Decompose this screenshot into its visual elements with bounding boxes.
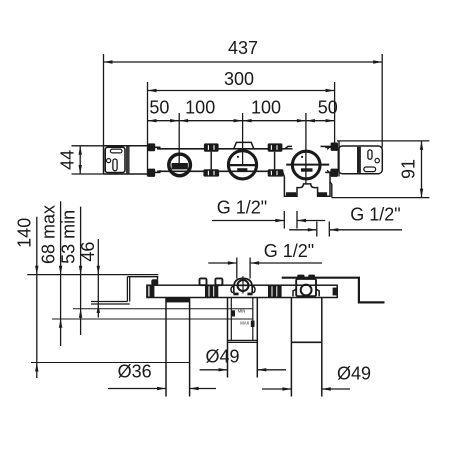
valve 3 circle bottom view	[301, 285, 312, 296]
rail body	[147, 285, 337, 297]
extension line left end 437	[103, 54, 105, 146]
right bracket plate	[338, 146, 382, 174]
housing step vertical	[330, 182, 332, 198]
svg-text:Ø49: Ø49	[205, 347, 239, 367]
dimension 437 line	[104, 60, 383, 63]
right bracket seam	[357, 147, 361, 173]
left Z bracket drop	[127, 277, 129, 302]
G12 dim 1	[212, 219, 325, 222]
reference line wall	[27, 274, 158, 276]
svg-text:Ø49: Ø49	[337, 364, 371, 384]
dimension 91 line	[420, 141, 423, 198]
svg-text:G 1/2": G 1/2"	[350, 205, 400, 225]
cartridge body inner	[231, 298, 253, 341]
cartridge crosshair	[236, 276, 249, 293]
valve 2 dot	[237, 156, 239, 158]
tube bottom line	[157, 170, 283, 172]
G12 ext lines port1	[284, 211, 297, 229]
clip bottom left	[148, 169, 161, 177]
clamp A top bolts	[204, 143, 219, 151]
housing bottom edge	[332, 197, 430, 199]
extension line 300 left	[147, 82, 149, 177]
clamp B stem	[274, 152, 276, 170]
svg-text:50: 50	[318, 98, 338, 118]
svg-text:Ø36: Ø36	[118, 362, 152, 382]
clip bottom right	[325, 169, 338, 177]
cartridge circle	[238, 280, 249, 291]
cartridge left wing	[231, 286, 234, 292]
cartridge hood	[234, 278, 252, 292]
clamp A block bottom view	[205, 285, 218, 297]
tube top right of valve3	[321, 145, 332, 147]
cartridge MAX clip	[251, 321, 255, 327]
right bracket slot	[364, 167, 376, 172]
cartridge flange lines	[228, 340, 258, 342]
clamp B bottom bolts	[268, 169, 284, 176]
extension line valve1	[178, 113, 180, 165]
left bracket seam	[126, 146, 129, 174]
left bracket vertical slot	[113, 159, 117, 171]
valve 1 ring	[169, 154, 191, 176]
G12 ext lines cartridge	[237, 258, 250, 279]
svg-text:437: 437	[228, 38, 258, 58]
G12 dim 3	[208, 261, 322, 264]
dimension 68max line	[59, 201, 62, 346]
cartridge right wing	[252, 286, 255, 292]
svg-text:140: 140	[15, 218, 35, 248]
left Z bracket inner top	[127, 276, 158, 278]
svg-text:MAX: MAX	[240, 320, 249, 325]
dimension O36	[108, 387, 216, 390]
svg-text:50: 50	[149, 98, 169, 118]
right Z bracket	[282, 278, 385, 303]
valve 3 ring	[292, 151, 320, 179]
housing top edge	[337, 140, 429, 142]
svg-text:G 1/2": G 1/2"	[264, 241, 314, 261]
left bracket hole	[107, 159, 111, 163]
valve 2 ring	[228, 151, 256, 179]
right bracket hole	[375, 158, 379, 162]
cartridge body outer	[228, 298, 258, 378]
tube top line	[157, 148, 285, 150]
extension line valve3	[305, 113, 307, 184]
outlet thread mark right	[318, 192, 327, 196]
left Z bracket lower leg	[91, 302, 130, 305]
valve 2 slot	[237, 168, 247, 172]
svg-text:44: 44	[58, 150, 78, 170]
left bracket plate	[105, 147, 125, 172]
svg-text:91: 91	[399, 159, 419, 179]
valve 3 slot	[301, 168, 313, 171]
dimension 300 line	[148, 89, 335, 92]
tube top step	[285, 146, 292, 148]
clamp B top bolts	[268, 143, 283, 151]
left Z bracket hook	[157, 277, 159, 280]
right end vertical	[381, 141, 383, 148]
clamp A bolts bottom view	[200, 278, 223, 285]
left bracket slot	[110, 149, 122, 153]
dimension O49 center	[200, 368, 286, 371]
svg-text:46: 46	[78, 242, 98, 262]
right bracket vertical slot	[368, 150, 372, 159]
extension line right end 437	[381, 54, 383, 141]
inlet bolt bottom view	[151, 279, 158, 285]
chain dimension line	[148, 119, 335, 122]
valve 3 housing bottom view	[296, 279, 316, 296]
rail right end block	[333, 288, 338, 296]
valve 3 dot	[301, 156, 303, 158]
dimension O49 right	[262, 387, 350, 390]
clamp A stem	[210, 152, 212, 170]
clamp B block bottom view	[268, 285, 282, 297]
valve 2 axis line	[230, 164, 255, 166]
pipe 3 outline	[291, 298, 321, 397]
clamp A bottom bolts	[203, 169, 219, 176]
svg-text:MIN: MIN	[238, 308, 246, 313]
tube top into valve3	[285, 148, 293, 150]
valve 3 bolts bottom view	[297, 275, 315, 280]
cartridge MIN clip	[231, 310, 235, 316]
dimension 46 line	[97, 239, 100, 318]
svg-text:68 max: 68 max	[39, 205, 59, 264]
extension line 300 right	[334, 82, 336, 143]
pipe 1 outline	[166, 298, 190, 397]
outlet block outline	[282, 171, 330, 196]
valve 3 housing wings	[293, 289, 319, 296]
dimension 140 line	[35, 217, 38, 378]
extension line valve2	[242, 113, 244, 166]
svg-text:100: 100	[185, 98, 215, 118]
valve 3 axis line	[286, 164, 329, 166]
clip top left	[148, 143, 161, 151]
G12 dim 2	[289, 228, 402, 231]
svg-text:G 1/2": G 1/2"	[217, 198, 267, 218]
G12 ext lines port2	[317, 222, 330, 237]
body left end cap	[104, 146, 149, 174]
clip top right	[325, 143, 338, 151]
valve 1 slot	[172, 163, 188, 169]
MIN reference line	[73, 308, 253, 310]
valve 2 top tab	[234, 142, 254, 149]
outlet thread mark left	[286, 192, 296, 196]
pipe 1 collar	[166, 298, 190, 303]
dimension 53min line	[79, 207, 82, 335]
svg-text:300: 300	[224, 69, 254, 89]
cartridge feet	[233, 293, 252, 296]
dimension 44 arrows	[79, 146, 82, 174]
svg-text:53 min: 53 min	[59, 210, 79, 264]
MAX reference line	[52, 318, 253, 320]
svg-text:100: 100	[251, 98, 281, 118]
pipe 3 joint line	[291, 341, 321, 343]
dimension 44 extension lines	[72, 146, 104, 174]
140 bottom reference line	[31, 362, 190, 364]
rail left end block	[147, 285, 155, 297]
right housing left vertical	[338, 141, 340, 177]
